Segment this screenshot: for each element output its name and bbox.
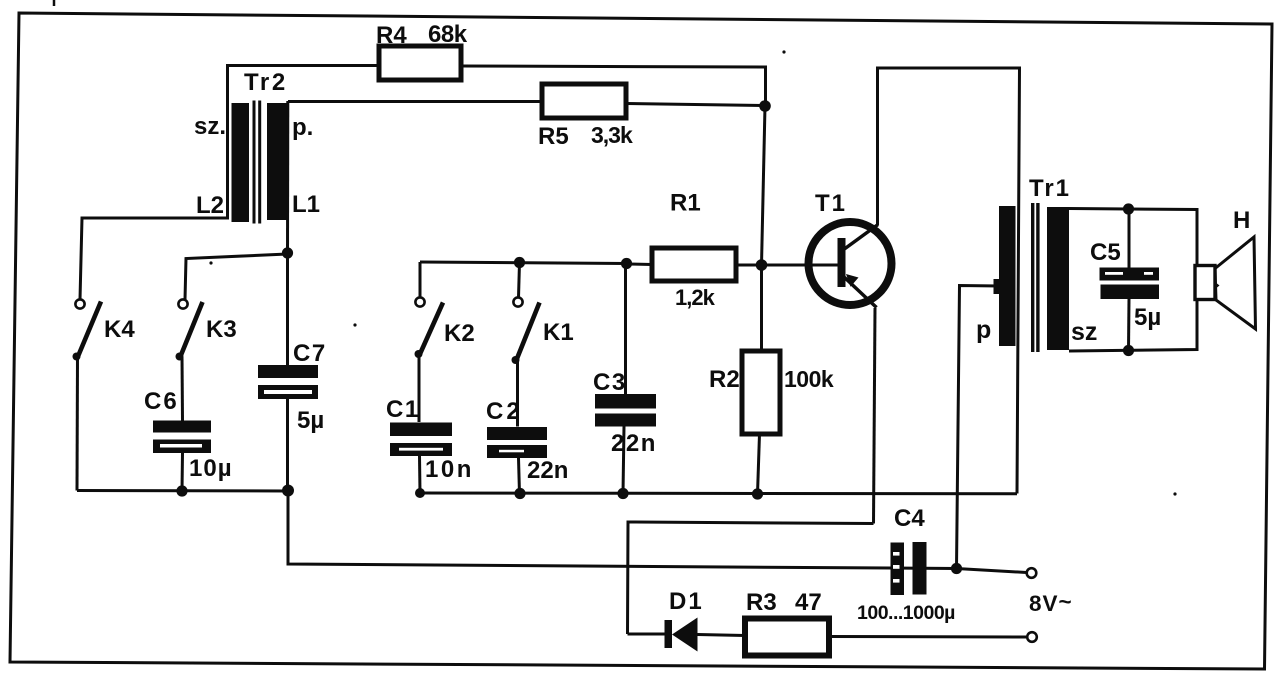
- svg-text:D1: D1: [669, 588, 704, 615]
- transformer Tr1 winding p: [976, 206, 1016, 346]
- wire K4 bottom vertical: [76, 357, 80, 491]
- node K1 top: [514, 257, 525, 268]
- svg-text:H: H: [1233, 207, 1250, 234]
- svg-text:R2: R2: [709, 366, 740, 393]
- capacitor C1: [386, 355, 474, 494]
- svg-text:R1: R1: [670, 190, 701, 217]
- wire Tr2 p winding right vertical: [286, 101, 289, 253]
- wire emitter return to diode branch: [628, 522, 874, 634]
- wire bottom rail right section: [420, 492, 1017, 496]
- node C4 right / Tr1 p: [951, 563, 962, 574]
- wire Tr1 sz bottom to speaker: [1069, 300, 1197, 351]
- wire Tr2 sz winding top vertical: [226, 65, 229, 218]
- switch K4: [73, 299, 136, 360]
- svg-text:C1: C1: [386, 396, 420, 423]
- node C3 bottom: [617, 488, 628, 499]
- diode D1: [628, 588, 746, 652]
- svg-text:K3: K3: [206, 316, 237, 343]
- wire R4 right to main vertical: [461, 66, 766, 106]
- transformer Tr1 core: [1031, 203, 1040, 352]
- wire R3 right to terminal: [829, 635, 1027, 639]
- switch K3: [176, 299, 237, 360]
- switch K1: [512, 263, 574, 365]
- capacitor C4: [857, 505, 955, 624]
- wire R5 right to node: [626, 104, 765, 106]
- svg-text:T1: T1: [815, 190, 847, 217]
- node C6 bottom: [176, 485, 187, 496]
- svg-text:8V~: 8V~: [1029, 589, 1073, 616]
- svg-text:C7: C7: [293, 340, 327, 367]
- svg-text:R3: R3: [746, 589, 777, 616]
- label L2: [196, 192, 224, 219]
- node R1 left / C3 top: [621, 258, 632, 269]
- svg-text:68k: 68k: [428, 21, 468, 48]
- wire main vertical to base node: [762, 106, 766, 265]
- wire top rail to R4: [226, 64, 379, 67]
- svg-text:K2: K2: [444, 320, 475, 347]
- capacitor C6: [144, 388, 233, 491]
- scan specks: [209, 50, 1176, 495]
- svg-text:sz.: sz.: [194, 113, 226, 140]
- switch K2: [415, 262, 475, 358]
- svg-text:100...1000µ: 100...1000µ: [857, 602, 955, 624]
- svg-text:1,2k: 1,2k: [675, 285, 716, 310]
- node C2 bottom: [514, 488, 525, 499]
- wire base node to R2: [760, 265, 763, 351]
- svg-text:C4: C4: [894, 505, 925, 532]
- capacitor C7: [258, 253, 327, 490]
- transformer Tr1 label: [1029, 175, 1071, 202]
- resistor R2: [709, 351, 834, 434]
- speaker H: [1195, 207, 1256, 329]
- svg-text:K1: K1: [543, 319, 574, 346]
- node C1 bottom: [415, 488, 425, 498]
- svg-text:Tr2: Tr2: [244, 69, 288, 96]
- transformer Tr2 core: [253, 101, 262, 224]
- wire R2 bottom: [758, 434, 760, 494]
- transformer Tr2 label: [244, 69, 288, 96]
- svg-text:C2: C2: [486, 398, 523, 425]
- svg-text:10n: 10n: [425, 456, 474, 483]
- resistor R1: [652, 190, 736, 311]
- transformer Tr2 winding L2 (sz): [232, 103, 250, 222]
- wire down from C7 node to supply rail: [288, 491, 1027, 573]
- wire K-line horizontal: [420, 262, 627, 264]
- node C5 bottom: [1123, 345, 1134, 356]
- capacitor C2: [486, 361, 568, 494]
- resistor R3: [745, 589, 829, 656]
- svg-text:5µ: 5µ: [297, 407, 324, 434]
- wire Tr1 sz top to speaker: [1069, 209, 1197, 266]
- svg-text:3,3k: 3,3k: [591, 122, 633, 148]
- label L1: [292, 191, 320, 218]
- wire L2 bottom to K4: [80, 218, 229, 300]
- svg-text:C5: C5: [1090, 239, 1121, 266]
- label p.: [292, 114, 313, 141]
- wire left ground run: [77, 489, 288, 493]
- svg-text:5µ: 5µ: [1134, 304, 1161, 331]
- transistor T1: [809, 190, 892, 308]
- transformer Tr1 winding sz: [1047, 207, 1097, 350]
- node L1 bottom junction: [282, 247, 293, 258]
- svg-text:sz: sz: [1071, 318, 1097, 346]
- svg-text:R5: R5: [538, 123, 569, 150]
- svg-text:R4: R4: [376, 22, 407, 49]
- svg-text:22n: 22n: [527, 457, 568, 484]
- node R4/R5 junction: [759, 100, 771, 112]
- terminal 8V top: [1027, 568, 1037, 578]
- wire Tr1 p winding to supply node: [957, 279, 1001, 569]
- svg-text:K4: K4: [104, 316, 135, 343]
- wire R1 left: [627, 263, 653, 267]
- svg-text:p: p: [976, 316, 991, 344]
- node C5 top: [1123, 203, 1134, 214]
- svg-text:100k: 100k: [784, 366, 834, 392]
- label sz.: [194, 113, 226, 140]
- transformer Tr2 winding L1 (p): [267, 103, 288, 220]
- wire emitter down: [874, 308, 876, 524]
- svg-text:p.: p.: [292, 114, 313, 141]
- capacitor C5: [1090, 209, 1161, 351]
- svg-text:10µ: 10µ: [189, 455, 233, 482]
- wire Tr2 p top to R5: [288, 100, 542, 103]
- node base junction: [756, 259, 768, 271]
- svg-text:47: 47: [795, 589, 822, 616]
- terminal 8V bottom: [1027, 632, 1037, 642]
- resistor R5: [538, 84, 633, 150]
- label 8V~: [1029, 589, 1073, 616]
- wire R1 right / base wire: [736, 264, 838, 267]
- svg-text:C6: C6: [144, 388, 179, 415]
- svg-text:Tr1: Tr1: [1029, 175, 1071, 202]
- svg-text:L2: L2: [196, 192, 224, 219]
- node C7 bottom junction: [282, 485, 294, 497]
- wire collector up and over to Tr1: [878, 68, 1020, 494]
- wire K3 to C6: [181, 357, 185, 421]
- svg-text:L1: L1: [292, 191, 320, 218]
- svg-text:22n: 22n: [611, 430, 657, 457]
- svg-text:C3: C3: [593, 369, 627, 396]
- resistor R4: [376, 21, 468, 80]
- wire L1 node to K3: [185, 254, 288, 300]
- node R2 bottom: [752, 488, 763, 499]
- capacitor C3: [593, 264, 657, 494]
